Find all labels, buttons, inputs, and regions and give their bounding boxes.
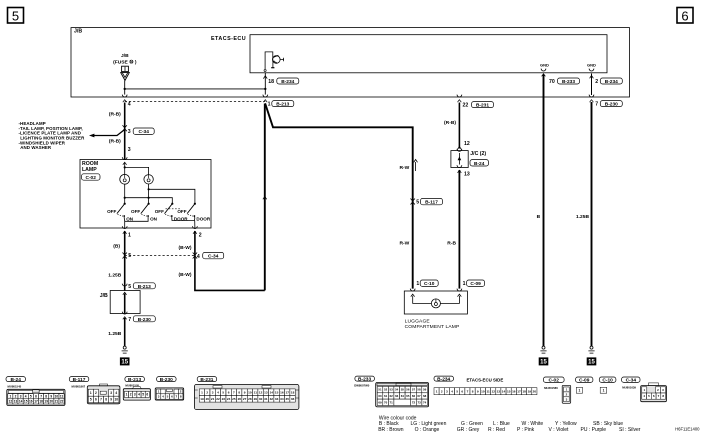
- svg-text:20: 20: [533, 389, 537, 393]
- svg-text:C-10: C-10: [602, 377, 613, 383]
- svg-text:31: 31: [264, 397, 268, 401]
- svg-text:B-213: B-213: [276, 102, 289, 108]
- ground 15 (right): [587, 346, 597, 366]
- svg-text:62: 62: [389, 394, 393, 398]
- svg-text:B-213: B-213: [138, 284, 151, 290]
- svg-text:DOOR: DOOR: [196, 216, 210, 221]
- wire: dashed connector link B-213: [125, 101, 266, 103]
- svg-text:(R-B): (R-B): [444, 120, 456, 126]
- connector face C-09: [576, 377, 593, 383]
- svg-text:32: 32: [270, 397, 274, 401]
- connector pin 3 C-34: [123, 125, 155, 153]
- switch SW1 OFF/ON: [107, 203, 134, 222]
- pin 18 B-234 (ETACS output): [263, 73, 298, 89]
- svg-text:11: 11: [60, 394, 64, 398]
- svg-text:B-234: B-234: [281, 79, 294, 85]
- svg-text:J/B: J/B: [74, 28, 82, 34]
- wire: lamp2 to switch rail: [149, 184, 195, 204]
- wire: SW1+SW2 to pin 1: [124, 218, 148, 228]
- svg-text:MU801867: MU801867: [72, 384, 86, 388]
- svg-text:8: 8: [105, 398, 107, 402]
- svg-text:ON: ON: [150, 216, 158, 221]
- connector face C-34: [622, 377, 640, 389]
- svg-text:1: 1: [268, 102, 271, 108]
- connector face B-230 pin grid: [155, 388, 184, 400]
- J/B pass-through box: [100, 291, 140, 314]
- svg-text:65: 65: [406, 394, 410, 398]
- svg-text:B-234: B-234: [605, 79, 618, 85]
- svg-text:67: 67: [417, 394, 421, 398]
- lamp bulb 2: [144, 175, 153, 184]
- svg-text:12: 12: [259, 390, 263, 394]
- connector pin 1 B-213 (J/B bottom): [263, 95, 294, 108]
- svg-text:10: 10: [55, 394, 59, 398]
- joint connector J/C (2) B-24: [451, 147, 489, 178]
- svg-text:3: 3: [446, 389, 448, 393]
- svg-text:24: 24: [227, 397, 231, 401]
- svg-text:12: 12: [464, 141, 470, 147]
- connector face C-02 pin column: [562, 385, 571, 403]
- lamp bulb 1: [120, 174, 130, 184]
- svg-text:36: 36: [291, 397, 295, 401]
- svg-text:18: 18: [522, 389, 526, 393]
- svg-text:6: 6: [228, 390, 230, 394]
- svg-text:R-B: R-B: [447, 240, 456, 246]
- svg-text:22: 22: [60, 400, 64, 404]
- ground 15 (center): [539, 346, 549, 366]
- svg-text:1: 1: [10, 394, 12, 398]
- wire: 1.25B ground wire: [576, 102, 592, 346]
- svg-text:(R-B): (R-B): [109, 139, 121, 145]
- svg-text:(R-B): (R-B): [109, 112, 121, 118]
- svg-text:69: 69: [378, 400, 382, 404]
- svg-text:12: 12: [491, 389, 495, 393]
- svg-text:B-231: B-231: [200, 377, 213, 383]
- wire: room lamp internal top: [125, 163, 149, 175]
- svg-text:27: 27: [243, 397, 247, 401]
- connector face B-233 pin grid: [376, 383, 429, 407]
- svg-text:1: 1: [436, 389, 438, 393]
- svg-text:17: 17: [34, 400, 38, 404]
- connector face B-231 pin grid: [195, 384, 299, 409]
- svg-text:26: 26: [238, 397, 242, 401]
- svg-text:B-117: B-117: [425, 200, 438, 206]
- svg-text:71: 71: [389, 400, 393, 404]
- svg-text:4: 4: [217, 390, 219, 394]
- svg-text:H6F11E1400: H6F11E1400: [675, 426, 700, 431]
- connector pin 1 C-09: [463, 280, 485, 287]
- wire: J/B internal bus: [125, 88, 266, 90]
- svg-text:6: 6: [35, 394, 37, 398]
- svg-text:5: 5: [12, 9, 19, 24]
- svg-text:13: 13: [264, 390, 268, 394]
- svg-text:BR : BrownO : OrangeGR : GreyR: BR : BrownO : OrangeGR : GreyR : RedP : …: [378, 427, 641, 433]
- svg-text:DW8007W0: DW8007W0: [354, 384, 370, 388]
- connector face B-213 pin grid: [123, 386, 150, 400]
- page tab 5: [8, 8, 24, 24]
- svg-text:4: 4: [138, 393, 140, 397]
- note: wire colour code: [378, 416, 641, 433]
- connector face B-234 pin row: [434, 388, 537, 395]
- transistor Q (ETACS room lamp driver): [264, 52, 284, 72]
- connector face C-10: [599, 377, 616, 383]
- svg-text:73: 73: [417, 400, 421, 404]
- wire: bus down to B-213 pin4: [124, 89, 126, 95]
- connector pin 4 C-34: [193, 252, 224, 259]
- connector pin room lamp top: [122, 157, 127, 165]
- svg-text:2: 2: [95, 391, 97, 395]
- connector face C-02: [543, 377, 564, 390]
- svg-text:2: 2: [595, 79, 598, 85]
- wire: thick run to luggage lamp: [265, 103, 417, 288]
- page tab 6: [677, 8, 693, 24]
- svg-text:4: 4: [128, 101, 131, 107]
- svg-text:28: 28: [248, 397, 252, 401]
- svg-text:1.25B: 1.25B: [108, 273, 122, 279]
- svg-text:ETACS-ECU SIDE: ETACS-ECU SIDE: [467, 378, 504, 383]
- svg-text:64: 64: [401, 394, 405, 398]
- wire: mechanical link dashes SW3-SW4: [166, 208, 181, 210]
- svg-text:6: 6: [95, 398, 97, 402]
- svg-text:11: 11: [486, 389, 490, 393]
- svg-text:MU801545: MU801545: [8, 384, 22, 388]
- svg-text:1: 1: [126, 393, 128, 397]
- wire: branch arrow to headlamp circuits: [89, 130, 125, 138]
- svg-text:15: 15: [507, 389, 511, 393]
- svg-text:16: 16: [512, 389, 516, 393]
- svg-text:9: 9: [477, 389, 479, 393]
- svg-text:5: 5: [90, 398, 92, 402]
- wire: fuse to bus: [124, 80, 126, 89]
- svg-text:30: 30: [259, 397, 263, 401]
- svg-text:6: 6: [681, 9, 688, 24]
- svg-text:52: 52: [384, 388, 388, 392]
- svg-text:68: 68: [423, 394, 427, 398]
- wire: 1.25B to ground: [108, 318, 124, 346]
- svg-text:1: 1: [90, 391, 92, 395]
- svg-text:B-233: B-233: [358, 376, 371, 382]
- svg-text:2: 2: [15, 394, 17, 398]
- svg-text:C-34: C-34: [208, 254, 219, 260]
- switch SW4 OFF/DOOR: [177, 203, 211, 222]
- svg-text:B-230: B-230: [160, 377, 173, 383]
- wire: room lamp pin1 ground path: [108, 231, 124, 291]
- svg-text:7: 7: [595, 102, 598, 108]
- svg-text:10: 10: [248, 390, 252, 394]
- svg-text:4: 4: [451, 389, 453, 393]
- svg-text:13: 13: [497, 389, 501, 393]
- connector pin 1 C-10: [416, 280, 438, 287]
- connector pin 22 B-231 (J/B bottom right): [457, 95, 494, 109]
- svg-text:MU801505: MU801505: [125, 383, 139, 387]
- svg-text:5: 5: [416, 200, 419, 206]
- svg-text:7: 7: [233, 390, 235, 394]
- svg-text:ROOM: ROOM: [82, 161, 98, 167]
- ETACS-ECU box: [211, 35, 607, 73]
- ground 15 (left): [120, 346, 130, 366]
- svg-text:1.25B: 1.25B: [576, 214, 590, 220]
- svg-text:C-34: C-34: [626, 377, 637, 383]
- svg-text:19: 19: [528, 389, 532, 393]
- wire: (R-B) to J/C: [444, 103, 470, 149]
- svg-text:2: 2: [130, 393, 132, 397]
- svg-text:22: 22: [216, 397, 220, 401]
- connector face B-117 pin grid: [87, 384, 120, 404]
- svg-text:MU801586: MU801586: [544, 386, 558, 390]
- svg-text:14: 14: [502, 389, 506, 393]
- svg-text:C-09: C-09: [470, 281, 481, 287]
- svg-text:B-24: B-24: [474, 161, 485, 167]
- svg-text:15: 15: [24, 400, 28, 404]
- svg-text:5: 5: [142, 393, 144, 397]
- svg-text:72: 72: [412, 400, 416, 404]
- svg-text:MU801639: MU801639: [622, 385, 636, 389]
- svg-text:8: 8: [238, 390, 240, 394]
- connector face B-117: [69, 377, 89, 389]
- svg-text:56: 56: [406, 388, 410, 392]
- svg-text:AND WASHER: AND WASHER: [20, 145, 52, 150]
- svg-text:1: 1: [201, 390, 203, 394]
- wire: dashed connector link C-34: [125, 255, 195, 257]
- svg-text:COMPARTMENT LAMP: COMPARTMENT LAMP: [405, 324, 460, 330]
- svg-text:34: 34: [280, 397, 284, 401]
- svg-text:6: 6: [146, 393, 148, 397]
- svg-text:29: 29: [254, 397, 258, 401]
- svg-text:2: 2: [441, 389, 443, 393]
- wire: thick riser to B-213 pin 1: [263, 104, 267, 291]
- svg-text:51: 51: [378, 388, 382, 392]
- svg-text:33: 33: [275, 397, 279, 401]
- svg-text:7: 7: [467, 389, 469, 393]
- node: [124, 166, 126, 168]
- svg-text:16: 16: [29, 400, 33, 404]
- svg-text:17: 17: [517, 389, 521, 393]
- svg-text:(B-W): (B-W): [178, 272, 191, 278]
- svg-text:13: 13: [464, 172, 470, 178]
- room lamp box C-02: [80, 160, 211, 229]
- ETACS GND pin 70 B-233: [540, 63, 579, 86]
- svg-text:2: 2: [206, 390, 208, 394]
- svg-text:LUGGAGE: LUGGAGE: [405, 318, 431, 324]
- connector pin 7 B-230 (J/B bottom): [589, 95, 622, 108]
- svg-text:5: 5: [456, 389, 458, 393]
- svg-text:B-24: B-24: [10, 377, 21, 383]
- svg-text:18: 18: [291, 390, 295, 394]
- svg-text:4: 4: [25, 394, 27, 398]
- svg-text:12: 12: [9, 400, 13, 404]
- svg-text:25: 25: [232, 397, 236, 401]
- note: headlamp branch text: [19, 121, 86, 150]
- svg-text:17: 17: [285, 390, 289, 394]
- svg-text:B-117: B-117: [73, 377, 86, 383]
- connector face B-231: [197, 377, 217, 383]
- svg-text:B-231: B-231: [476, 103, 489, 109]
- svg-text:19: 19: [44, 400, 48, 404]
- wire: SW3+SW4 to pin 2: [172, 218, 195, 228]
- svg-text:21: 21: [55, 400, 59, 404]
- svg-text:J/B: J/B: [121, 53, 129, 59]
- connector pin 5 B-117: [411, 198, 443, 205]
- svg-text:58: 58: [417, 388, 421, 392]
- svg-text:14: 14: [19, 400, 23, 404]
- svg-text:ON: ON: [126, 216, 134, 221]
- svg-text:63: 63: [395, 394, 399, 398]
- svg-text:GND: GND: [587, 63, 596, 68]
- svg-text:2: 2: [199, 233, 202, 239]
- switch SW2 OFF/ON: [131, 203, 158, 222]
- connector face C-34 pin grid: [641, 383, 667, 402]
- svg-text:20: 20: [206, 397, 210, 401]
- connector pin 1 (room lamp bottom): [122, 226, 131, 238]
- svg-text:3: 3: [128, 129, 131, 135]
- svg-text:9: 9: [110, 398, 112, 402]
- svg-text:(B): (B): [113, 244, 120, 250]
- svg-text:74: 74: [423, 400, 427, 404]
- svg-text:35: 35: [285, 397, 289, 401]
- svg-text:13: 13: [14, 400, 18, 404]
- wire: bus down to B-213 pin1: [264, 89, 266, 95]
- wire: R-B to luggage lamp: [447, 170, 459, 289]
- svg-text:19: 19: [200, 397, 204, 401]
- svg-text:55: 55: [401, 388, 405, 392]
- connector face B-230: [157, 377, 177, 383]
- wire: base lead: [265, 52, 273, 69]
- svg-text:3: 3: [110, 391, 112, 395]
- svg-text:16: 16: [280, 390, 284, 394]
- svg-text:OFF: OFF: [177, 209, 186, 214]
- luggage compartment lamp box: [404, 289, 467, 331]
- switch SW3 OFF/DOOR: [155, 203, 189, 222]
- svg-text:23: 23: [222, 397, 226, 401]
- svg-text:18: 18: [39, 400, 43, 404]
- svg-text:6: 6: [461, 389, 463, 393]
- svg-text:5: 5: [30, 394, 32, 398]
- svg-text:B-230: B-230: [138, 317, 151, 323]
- fuse J/B (FUSE 10): [113, 53, 137, 80]
- svg-text:C-34: C-34: [138, 129, 149, 135]
- svg-text:(B-W): (B-W): [178, 245, 191, 251]
- junction block J/B box: [71, 28, 630, 97]
- svg-text:4: 4: [197, 254, 200, 260]
- node: pin18 junction: [264, 88, 266, 90]
- svg-text:1: 1: [603, 388, 605, 392]
- ETACS GND pin 2 B-234: [587, 63, 622, 95]
- svg-text:C-09: C-09: [579, 377, 590, 383]
- svg-text:OFF: OFF: [155, 209, 164, 214]
- svg-text:3: 3: [212, 390, 214, 394]
- svg-text:9: 9: [244, 390, 246, 394]
- svg-text:1: 1: [128, 233, 131, 239]
- connector pin 5 B-213: [122, 283, 155, 290]
- connector pin 5 C-34: [123, 253, 132, 260]
- lamp bulb (luggage): [431, 299, 440, 308]
- svg-text:22: 22: [463, 103, 469, 109]
- svg-text:11: 11: [254, 390, 258, 394]
- svg-text:60: 60: [378, 394, 382, 398]
- wire: room lamp pin2 to ETACS (B-W): [178, 231, 264, 290]
- svg-text:R-W: R-W: [400, 240, 410, 246]
- svg-text:OFF: OFF: [131, 209, 140, 214]
- svg-text:B-213: B-213: [128, 377, 141, 383]
- connector face C-09 pin: [576, 387, 582, 393]
- svg-text:J/C (2): J/C (2): [470, 151, 486, 157]
- connector face B-24: [6, 377, 26, 389]
- svg-text:8: 8: [472, 389, 474, 393]
- svg-text:3: 3: [20, 394, 22, 398]
- svg-text:C-02: C-02: [85, 175, 96, 181]
- connector pin 2 (room lamp bottom): [192, 226, 201, 238]
- svg-text:9: 9: [50, 394, 52, 398]
- svg-text:57: 57: [412, 388, 416, 392]
- connector face C-10 pin: [600, 387, 607, 393]
- svg-text:21: 21: [211, 397, 215, 401]
- svg-text:53: 53: [389, 388, 393, 392]
- connector face B-234: [434, 376, 503, 382]
- svg-text:5: 5: [222, 390, 224, 394]
- svg-text:B-234: B-234: [437, 376, 450, 382]
- svg-text:1: 1: [463, 281, 466, 287]
- svg-text:R-W: R-W: [400, 165, 410, 171]
- svg-text:4: 4: [115, 391, 117, 395]
- svg-text:OFF: OFF: [107, 209, 116, 214]
- svg-text:8: 8: [45, 394, 47, 398]
- svg-text:61: 61: [384, 394, 388, 398]
- svg-text:54: 54: [395, 388, 399, 392]
- svg-text:10: 10: [481, 389, 485, 393]
- svg-text:70: 70: [384, 400, 388, 404]
- svg-text:ETACS-ECU: ETACS-ECU: [211, 36, 246, 42]
- svg-text:70: 70: [549, 79, 555, 85]
- wire: (R-B) feed down to room lamp: [109, 103, 125, 160]
- svg-text:3: 3: [128, 147, 131, 153]
- connector face B-213: [125, 377, 144, 388]
- connector pin 4 B-213 (J/B bottom): [122, 95, 131, 108]
- wire: SW1 stem: [124, 198, 126, 204]
- svg-text:B-230: B-230: [605, 102, 618, 108]
- connector pin 7 B-233: [122, 312, 155, 323]
- svg-text:59: 59: [423, 388, 427, 392]
- svg-text:GND: GND: [540, 63, 549, 68]
- connector face B-233: [354, 376, 374, 388]
- svg-text:J/B: J/B: [100, 293, 108, 299]
- svg-text:14: 14: [270, 390, 274, 394]
- svg-text:7: 7: [128, 317, 131, 323]
- svg-text:7: 7: [100, 398, 102, 402]
- svg-text:10: 10: [115, 398, 119, 402]
- svg-text:66: 66: [412, 394, 416, 398]
- svg-text:5: 5: [128, 253, 131, 259]
- svg-text:5: 5: [128, 284, 131, 290]
- svg-text:15: 15: [275, 390, 279, 394]
- node: fuse junction: [124, 88, 126, 90]
- svg-text:3: 3: [134, 393, 136, 397]
- svg-text:C-10: C-10: [424, 281, 435, 287]
- wire: lamp1 to switch rail: [125, 184, 173, 203]
- svg-text:18: 18: [268, 79, 274, 85]
- svg-text:1.25B: 1.25B: [108, 331, 122, 337]
- svg-text:1: 1: [578, 388, 580, 392]
- svg-text:LAMP: LAMP: [82, 167, 97, 173]
- svg-text:7: 7: [40, 394, 42, 398]
- connector face B-24 pin grid: [7, 389, 65, 405]
- wire: B ground wire: [537, 75, 544, 347]
- svg-text:B: B: [537, 214, 541, 220]
- svg-text:B-233: B-233: [562, 79, 575, 85]
- svg-text:20: 20: [50, 400, 54, 404]
- svg-text:1: 1: [416, 281, 419, 287]
- svg-text:C-02: C-02: [548, 377, 559, 383]
- svg-text:(FUSE ⑩ ): (FUSE ⑩ ): [113, 60, 137, 66]
